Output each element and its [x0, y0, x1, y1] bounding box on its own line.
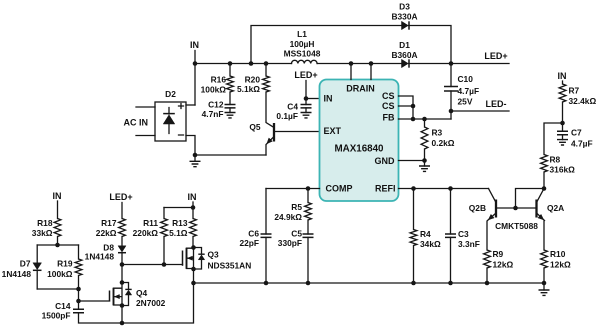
svg-text:LED-: LED- — [486, 99, 507, 109]
resistor R10 12k — [541, 249, 571, 283]
wire Q4 gate — [79, 300, 110, 302]
wire Q5 emitter return — [195, 154, 266, 156]
svg-text:GND: GND — [375, 156, 396, 166]
capacitor C10 4.7uF 25V — [444, 64, 479, 120]
wire D7/R19 bottom — [37, 287, 81, 292]
capacitor C6 22pF — [239, 189, 271, 284]
svg-text:100µH: 100µH — [290, 39, 315, 49]
svg-text:R4: R4 — [420, 229, 431, 239]
svg-text:1N4148: 1N4148 — [85, 252, 115, 262]
inductor L1 100uH MSS1048 — [284, 29, 321, 64]
svg-text:32.4kΩ: 32.4kΩ — [569, 96, 597, 106]
pin label EXT — [324, 126, 342, 136]
svg-text:3.3nF: 3.3nF — [458, 239, 480, 249]
svg-text:LED+: LED+ — [484, 51, 507, 61]
svg-text:C4: C4 — [287, 102, 298, 112]
svg-text:Q2A: Q2A — [547, 203, 564, 213]
wire gate drive node — [120, 262, 183, 267]
svg-text:220kΩ: 220kΩ — [133, 228, 159, 238]
wire main rail — [195, 63, 509, 65]
capacitor C5 330pF — [278, 229, 314, 284]
svg-text:22pF: 22pF — [239, 238, 259, 248]
transistor Q2B (NPN) — [469, 189, 496, 251]
node A (R7/C7/R8 junction) — [560, 121, 565, 126]
wire D7/R19 top — [37, 243, 78, 248]
svg-text:IN: IN — [558, 71, 567, 81]
svg-text:316kΩ: 316kΩ — [550, 165, 576, 175]
svg-text:MAX16840: MAX16840 — [334, 144, 384, 155]
pin label CS (2) — [382, 101, 395, 111]
svg-text:33kΩ: 33kΩ — [32, 228, 53, 238]
svg-text:4.7µF: 4.7µF — [571, 139, 593, 149]
junction dots on main rail — [193, 61, 454, 66]
svg-text:100kΩ: 100kΩ — [201, 85, 227, 95]
wire COMP net — [266, 186, 320, 191]
svg-text:R7: R7 — [569, 86, 580, 96]
ground (C7) — [557, 135, 568, 145]
svg-text:R10: R10 — [550, 249, 566, 259]
svg-text:24.9kΩ: 24.9kΩ — [274, 212, 302, 222]
wire Q4 source — [121, 306, 123, 324]
wire AC input stubs — [136, 107, 155, 136]
svg-text:R20: R20 — [245, 75, 261, 85]
node IN (left input) — [53, 191, 62, 219]
svg-text:R18: R18 — [37, 218, 53, 228]
svg-text:4.7µF: 4.7µF — [458, 86, 480, 96]
resistor R8 316k — [541, 123, 576, 189]
svg-text:L1: L1 — [297, 29, 307, 39]
pin label DRAIN — [346, 84, 375, 94]
wire GND pin — [399, 158, 427, 163]
pin label REFI — [375, 184, 396, 194]
svg-text:5.1Ω: 5.1Ω — [169, 228, 188, 238]
label MAX16840 — [334, 144, 384, 155]
pin label FB — [383, 113, 395, 123]
svg-text:LED+: LED+ — [294, 70, 317, 80]
wire IN pin — [306, 98, 320, 100]
node IN (right input) — [558, 71, 567, 84]
svg-text:2N7002: 2N7002 — [136, 298, 166, 308]
diode D8 1N4148 — [85, 243, 126, 265]
svg-text:R9: R9 — [493, 249, 504, 259]
svg-text:D7: D7 — [20, 259, 31, 269]
svg-text:Q3: Q3 — [208, 250, 220, 260]
wire REFI rail — [399, 186, 489, 191]
label CMKT5088 — [495, 221, 538, 231]
svg-text:NDS351AN: NDS351AN — [208, 261, 252, 271]
resistor R11 220k — [133, 208, 168, 265]
capacitor C12 4.7nF — [202, 100, 236, 120]
svg-text:R5: R5 — [291, 202, 302, 212]
svg-text:B360A: B360A — [391, 50, 417, 60]
resistor R17 22k — [96, 218, 126, 246]
wire CS pins — [399, 96, 416, 121]
capacitor C14 1500pF — [42, 289, 84, 321]
node LED- (output) — [449, 99, 509, 113]
svg-text:5.1kΩ: 5.1kΩ — [237, 84, 260, 94]
svg-text:IN: IN — [190, 40, 199, 50]
op-amp U1 MAX16840 (IC body) — [320, 80, 399, 202]
diode D1 B360A — [391, 40, 417, 68]
svg-text:12kΩ: 12kΩ — [550, 260, 571, 270]
label AC IN — [124, 118, 149, 128]
wire FB rail — [399, 117, 452, 122]
svg-text:C7: C7 — [571, 128, 582, 138]
svg-text:D3: D3 — [399, 2, 410, 12]
pin label IN — [324, 94, 333, 104]
resistor R13 5.1 — [169, 208, 196, 248]
svg-text:12kΩ: 12kΩ — [493, 260, 514, 270]
svg-text:C6: C6 — [248, 229, 259, 239]
pin label CS (1) — [382, 91, 395, 101]
resistor R9 12k — [484, 249, 514, 283]
node IN (mid input) — [188, 192, 197, 208]
svg-text:Q4: Q4 — [136, 288, 148, 298]
transistor Q4 2N7002 (NMOS) — [110, 280, 166, 308]
svg-text:IN: IN — [53, 191, 62, 201]
pin label COMP — [326, 184, 353, 194]
ground (C12) — [225, 108, 236, 118]
svg-text:R11: R11 — [143, 218, 158, 228]
svg-text:22kΩ: 22kΩ — [96, 228, 117, 238]
svg-text:D2: D2 — [165, 89, 176, 99]
node LED+ (gate drive) — [109, 192, 132, 219]
svg-text:CS: CS — [382, 101, 395, 111]
wire D2 minus output — [186, 136, 195, 156]
wire Q4 drain — [121, 265, 123, 283]
svg-text:0.2kΩ: 0.2kΩ — [432, 138, 455, 148]
svg-text:330pF: 330pF — [278, 238, 302, 248]
ground (D2 minus) — [190, 153, 201, 167]
diode D3 B330A — [391, 2, 417, 30]
svg-text:Q5: Q5 — [249, 122, 261, 132]
svg-text:R17: R17 — [101, 218, 117, 228]
svg-text:R13: R13 — [172, 218, 188, 228]
wire C14 to bottom — [79, 269, 194, 325]
svg-text:1N4148: 1N4148 — [2, 269, 32, 279]
svg-text:25V: 25V — [458, 97, 473, 107]
ground (C4) — [301, 108, 312, 118]
svg-text:D1: D1 — [399, 40, 410, 50]
transistor Q2A (NPN) — [537, 189, 565, 251]
bridge rectifier D2 — [155, 89, 186, 141]
node LED+ (mid) — [294, 70, 317, 105]
svg-text:CS: CS — [382, 91, 395, 101]
svg-text:R3: R3 — [432, 128, 443, 138]
resistor R19 100k — [47, 245, 82, 289]
transistor Q5 (NPN) — [249, 92, 274, 155]
resistor R3 0.2k — [421, 119, 455, 161]
svg-text:LED+: LED+ — [109, 192, 132, 202]
svg-text:REFI: REFI — [375, 184, 396, 194]
wire bottom rail — [194, 282, 545, 284]
svg-text:B330A: B330A — [391, 12, 417, 22]
wire top rail (D3 branch) — [251, 26, 451, 64]
resistor R20 5.1k — [237, 64, 269, 95]
svg-text:R16: R16 — [211, 75, 227, 85]
resistor R16 100k — [201, 64, 234, 105]
svg-text:AC IN: AC IN — [124, 118, 149, 128]
svg-text:DRAIN: DRAIN — [346, 84, 375, 94]
svg-text:IN: IN — [188, 192, 197, 202]
wire IN jog — [164, 205, 195, 210]
capacitor C7 4.7uF — [557, 123, 593, 149]
svg-text:C10: C10 — [458, 74, 474, 84]
svg-text:C12: C12 — [208, 100, 224, 110]
resistor R4 34k — [410, 189, 441, 284]
transistor Q3 NDS351AN (NMOS) — [183, 245, 252, 271]
resistor R7 32.4k — [559, 84, 596, 123]
wire DRAIN stubs — [351, 64, 371, 80]
ground (IC GND) — [419, 161, 430, 172]
svg-text:EXT: EXT — [324, 126, 342, 136]
svg-text:R8: R8 — [550, 155, 561, 165]
svg-text:Q2B: Q2B — [469, 203, 486, 213]
svg-text:CMKT5088: CMKT5088 — [495, 221, 538, 231]
svg-text:MSS1048: MSS1048 — [284, 48, 321, 58]
resistor R18 33k — [32, 218, 61, 245]
resistor R5 24.9k — [274, 189, 311, 235]
ground (bottom rail) — [539, 283, 550, 295]
svg-text:1500pF: 1500pF — [42, 311, 71, 321]
pin label GND — [375, 156, 396, 166]
wire D2 plus output — [186, 104, 195, 106]
svg-text:IN: IN — [324, 94, 333, 104]
wire mirror base link — [496, 186, 546, 210]
wire Q5 base to EXT — [274, 131, 320, 133]
svg-text:34kΩ: 34kΩ — [420, 239, 441, 249]
svg-text:4.7nF: 4.7nF — [202, 109, 224, 119]
svg-text:0.1µF: 0.1µF — [276, 111, 298, 121]
capacitor C4 0.1uF — [276, 102, 311, 122]
svg-text:R19: R19 — [57, 259, 73, 269]
svg-text:C5: C5 — [291, 229, 302, 239]
svg-text:FB: FB — [383, 113, 395, 123]
node LED+ (output) — [484, 51, 507, 61]
junction dots on bottom rail — [191, 281, 546, 286]
capacitor C3 3.3nF — [445, 189, 480, 284]
svg-text:COMP: COMP — [326, 184, 353, 194]
svg-text:100kΩ: 100kΩ — [47, 269, 73, 279]
diode D7 1N4148 — [2, 245, 42, 289]
node IN (top left input) — [190, 40, 199, 105]
svg-text:C14: C14 — [55, 301, 71, 311]
svg-text:C3: C3 — [458, 229, 469, 239]
